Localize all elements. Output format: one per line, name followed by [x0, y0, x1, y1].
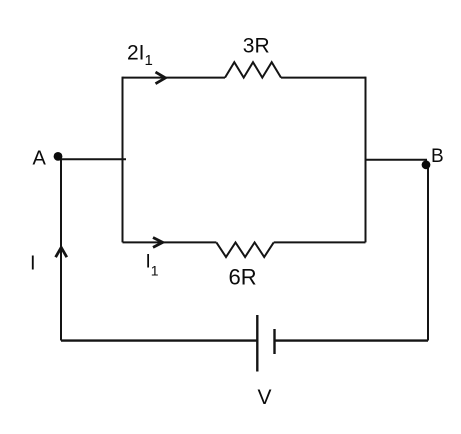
wire right branch vertical (top branch corner down to bottom branch) — [365, 77, 367, 243]
svg-text:3R: 3R — [243, 34, 270, 57]
arrow for current 2I1 — [156, 72, 166, 84]
svg-text:6R: 6R — [229, 265, 257, 290]
svg-text:B: B — [431, 146, 444, 167]
node B junction dot — [422, 160, 431, 169]
wire top branch left (junction to resistor 3R) — [123, 77, 226, 79]
node A junction dot — [54, 152, 63, 161]
wire bottom branch right (resistor 6R to right junction) — [274, 241, 366, 243]
resistor 3R zigzag — [225, 62, 281, 77]
wire left vertical (node A down to battery loop) — [60, 159, 62, 340]
svg-text:2I1: 2I1 — [127, 41, 153, 69]
wire bottom branch left (junction to resistor 6R) — [123, 241, 217, 243]
svg-text:A: A — [33, 148, 47, 170]
wire right vertical (node B down to battery loop) — [427, 162, 429, 341]
battery V short plate (negative) — [273, 329, 275, 354]
svg-text:V: V — [257, 386, 271, 409]
wire left branch vertical (top branch corner down to bottom branch) — [122, 77, 124, 243]
svg-text:I1: I1 — [146, 252, 159, 279]
wire bottom right (battery negative plate to corner) — [275, 339, 429, 341]
wire node B to right junction — [366, 159, 428, 161]
wire node A to left junction — [58, 158, 126, 160]
svg-text:I: I — [30, 252, 36, 274]
battery V long plate (positive) — [256, 315, 258, 372]
resistor 6R zigzag — [216, 242, 273, 257]
wire bottom left (corner to battery positive plate) — [61, 339, 257, 341]
wire top branch right (resistor 3R to right junction) — [281, 77, 366, 79]
arrow for current I1 — [153, 238, 163, 248]
arrow for current I — [56, 247, 67, 257]
